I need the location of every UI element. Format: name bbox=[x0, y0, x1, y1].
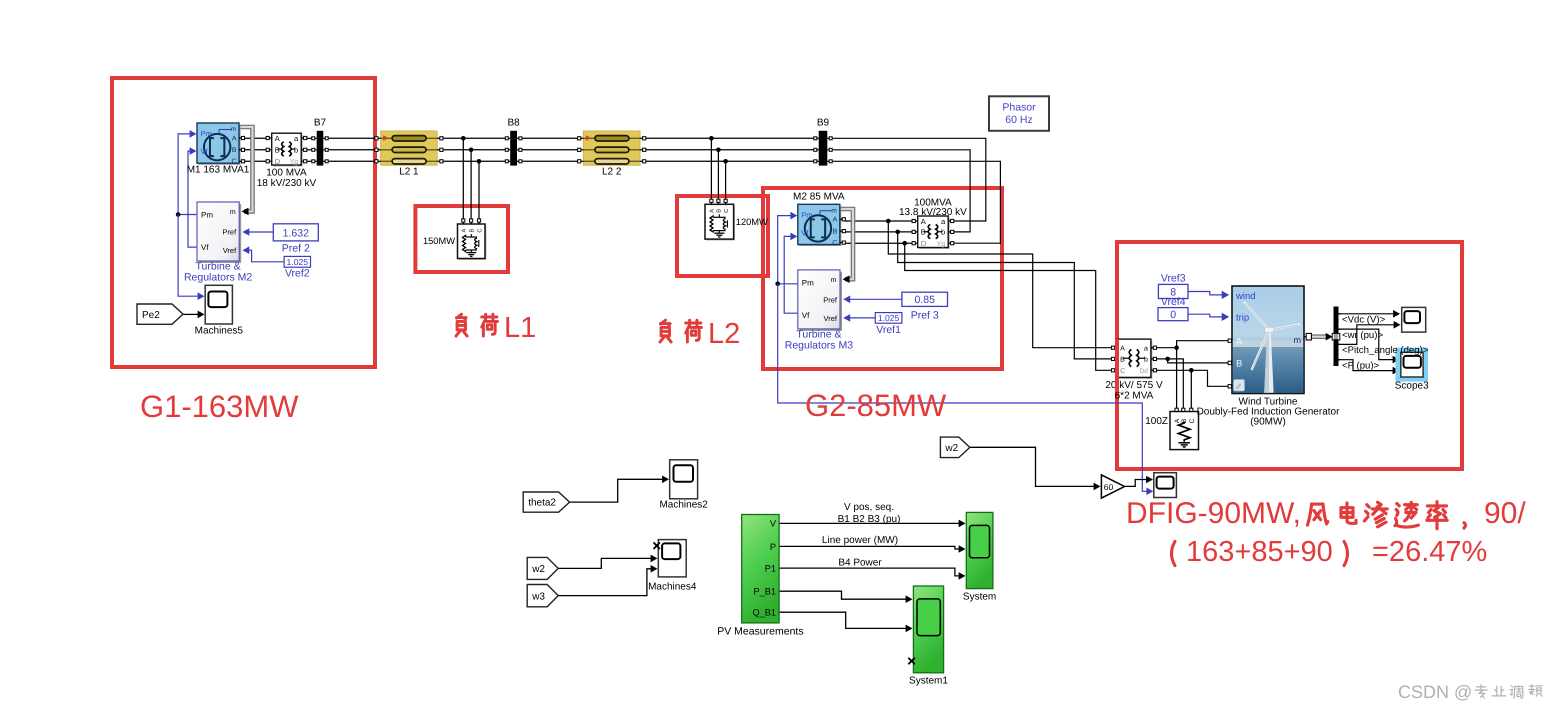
svg-text:B: B bbox=[469, 228, 475, 232]
transformer T3 bbox=[1105, 339, 1163, 401]
wire M1 to transformer T1 bbox=[244, 138, 268, 161]
svg-text:C: C bbox=[1120, 368, 1125, 375]
svg-text:A: A bbox=[275, 134, 280, 143]
svg-text:Line power (MW): Line power (MW) bbox=[822, 535, 898, 546]
svg-text:G1-163MW: G1-163MW bbox=[140, 389, 299, 424]
svg-text:System: System bbox=[963, 592, 996, 603]
wire B8 to line L2 2 bbox=[520, 138, 578, 161]
svg-text:1.025: 1.025 bbox=[287, 257, 309, 267]
svg-text:V pos, seq.: V pos, seq. bbox=[844, 502, 894, 513]
wind turbine DFIG block bbox=[1197, 286, 1341, 427]
wire Vref4 constant to trip input bbox=[1188, 313, 1229, 321]
svg-text:B: B bbox=[921, 228, 926, 237]
constant Pref 3 value 0.85 bbox=[902, 292, 948, 321]
annotation box load L2 bbox=[677, 196, 768, 276]
svg-text:Vf: Vf bbox=[801, 228, 809, 237]
svg-text:P_B1: P_B1 bbox=[754, 587, 776, 597]
svg-text:System1: System1 bbox=[909, 676, 948, 687]
svg-text:<Pitch_angle (deg)>: <Pitch_angle (deg)> bbox=[1342, 345, 1429, 356]
svg-text:Vref3: Vref3 bbox=[1161, 273, 1186, 285]
input tag w2 second bbox=[940, 437, 969, 458]
svg-text:Machines4: Machines4 bbox=[648, 582, 697, 593]
input tag w2 bbox=[527, 557, 558, 579]
svg-text:trip: trip bbox=[1236, 313, 1249, 324]
wire PV Q_B1 output to System1 bbox=[779, 612, 912, 632]
Phasor 60 Hz block bbox=[989, 96, 1049, 131]
svg-text:PV Measurements: PV Measurements bbox=[717, 626, 803, 638]
wind turbine measurement bus to bus selector bbox=[1306, 333, 1333, 341]
svg-text:G2-85MW: G2-85MW bbox=[805, 388, 947, 423]
svg-text:60 Hz: 60 Hz bbox=[1005, 114, 1032, 126]
svg-text:Vf: Vf bbox=[802, 311, 810, 320]
svg-text:1.632: 1.632 bbox=[283, 227, 309, 239]
svg-text:Pref 3: Pref 3 bbox=[911, 310, 939, 322]
wire Vref1 constant to T&R M3 bbox=[843, 314, 875, 322]
svg-text:Q_B1: Q_B1 bbox=[753, 608, 777, 618]
svg-text:B: B bbox=[232, 147, 237, 154]
svg-text:20 kV/ 575 V: 20 kV/ 575 V bbox=[1105, 380, 1163, 391]
svg-text:M2 85 MVA: M2 85 MVA bbox=[793, 191, 845, 202]
svg-text:L2 1: L2 1 bbox=[399, 167, 419, 178]
signal label V pos seq bbox=[838, 502, 901, 525]
gain 60 bbox=[1101, 475, 1124, 498]
load block 150MW bbox=[458, 219, 487, 260]
scope Scope3 highlighted bbox=[1395, 348, 1429, 392]
wire w3 to Machines4 bbox=[558, 565, 657, 596]
label load L1 (Chinese) bbox=[456, 312, 536, 344]
wire taps to load 120MW bbox=[709, 136, 728, 201]
svg-text:m: m bbox=[831, 207, 836, 214]
PV Measurements block bbox=[717, 515, 803, 638]
wire L2 2 to bus B9 bbox=[644, 138, 815, 161]
svg-text:m: m bbox=[1294, 335, 1302, 345]
svg-text:60: 60 bbox=[1104, 482, 1114, 492]
wire B9 to G2/DFIG connection verticals bbox=[831, 138, 1001, 243]
input tag w3 bbox=[527, 585, 558, 607]
bus selector output wires to scopes bbox=[1339, 310, 1401, 374]
bus selector signal labels bbox=[1342, 315, 1429, 372]
svg-text:Pm: Pm bbox=[201, 129, 212, 138]
annotation box G2 bbox=[763, 188, 1002, 369]
svg-text:150MW: 150MW bbox=[423, 236, 455, 246]
scope Machines4 bbox=[648, 540, 697, 593]
svg-text:Regulators M3: Regulators M3 bbox=[785, 339, 853, 351]
svg-text:w2: w2 bbox=[944, 443, 958, 454]
wire L2 1 to bus B8 bbox=[442, 138, 507, 161]
svg-text:Vref2: Vref2 bbox=[285, 268, 310, 280]
wire PV V output to System bbox=[779, 520, 965, 528]
svg-text:Pref: Pref bbox=[823, 295, 838, 304]
subsystem Turbine & Regulators M2reg bbox=[184, 202, 252, 284]
svg-text:L1: L1 bbox=[504, 312, 536, 344]
svg-text:6*2 MVA: 6*2 MVA bbox=[1115, 390, 1154, 401]
svg-text:theta2: theta2 bbox=[528, 498, 556, 509]
wire Pe2 to Machines5 bbox=[183, 311, 205, 319]
svg-text:A: A bbox=[833, 217, 838, 224]
svg-text:Yg: Yg bbox=[290, 159, 299, 166]
svg-text:Pref: Pref bbox=[222, 228, 237, 237]
transformer T2 bbox=[912, 216, 954, 249]
svg-text:18 kV/230 kV: 18 kV/230 kV bbox=[257, 178, 317, 189]
bus selector bbox=[1332, 307, 1340, 367]
svg-text:P1: P1 bbox=[765, 564, 776, 574]
load 100Z bbox=[1145, 408, 1198, 449]
bus B7 bbox=[312, 118, 328, 166]
svg-text:A: A bbox=[462, 228, 468, 232]
display System1 bbox=[908, 586, 948, 687]
constant Vref2 value 1.025 bbox=[284, 256, 310, 279]
label DFIG annotation line 2 bbox=[1172, 536, 1488, 568]
wire gain 60 to scope bbox=[1125, 476, 1154, 487]
svg-text:Vref: Vref bbox=[824, 314, 838, 323]
svg-text:DFIG-90MW,: DFIG-90MW, bbox=[1126, 497, 1301, 530]
svg-text:A: A bbox=[1120, 346, 1125, 353]
svg-text:w3: w3 bbox=[531, 591, 545, 602]
svg-text:Phasor: Phasor bbox=[1002, 102, 1036, 114]
transmission line block L2 2 bbox=[578, 131, 646, 178]
transmission line block L2 1 bbox=[375, 131, 443, 178]
svg-text:Regulators M2: Regulators M2 bbox=[184, 272, 252, 284]
svg-text:1.025: 1.025 bbox=[878, 313, 900, 323]
svg-text:A: A bbox=[710, 209, 716, 213]
constant Vref1 value 1.025 bbox=[875, 313, 902, 336]
wire T1 to bus B7 bbox=[306, 138, 314, 161]
svg-text:b: b bbox=[941, 228, 945, 237]
svg-text:A: A bbox=[1236, 337, 1243, 348]
svg-text:B: B bbox=[1120, 357, 1125, 364]
svg-text:B4 Power: B4 Power bbox=[838, 558, 882, 569]
svg-text:a: a bbox=[1144, 346, 1148, 353]
subsystem Turbine & Regulators M3reg bbox=[785, 270, 853, 352]
svg-text:C: C bbox=[1189, 418, 1196, 423]
constant Vref4 value 0 bbox=[1158, 296, 1188, 321]
svg-text:M1 163 MVA1: M1 163 MVA1 bbox=[187, 165, 250, 176]
svg-text:B8: B8 bbox=[507, 118, 520, 129]
annotation box load L1 bbox=[415, 206, 508, 272]
broken link mark Machines4 bbox=[654, 542, 660, 549]
scope gain scope bbox=[1154, 473, 1177, 498]
svg-text:B: B bbox=[717, 209, 723, 213]
svg-text:D: D bbox=[275, 157, 281, 166]
svg-text:L2 2: L2 2 bbox=[602, 167, 622, 178]
transformer T1 bbox=[257, 133, 317, 189]
svg-text:C: C bbox=[723, 209, 730, 213]
svg-text:<wr (pu)>: <wr (pu)> bbox=[1342, 330, 1383, 341]
label DFIG annotation line 1 bbox=[1126, 497, 1526, 530]
wire taps to load 150MW bbox=[461, 136, 481, 221]
svg-text:Pm: Pm bbox=[801, 210, 812, 219]
load block 120MW bbox=[705, 199, 735, 240]
svg-text:m: m bbox=[230, 209, 236, 216]
svg-text:A: A bbox=[232, 135, 237, 142]
svg-text:Vf: Vf bbox=[201, 147, 209, 156]
svg-text:Pm: Pm bbox=[802, 278, 814, 287]
svg-text:(90MW): (90MW) bbox=[1250, 416, 1286, 427]
scope Machines5 bbox=[195, 285, 244, 336]
svg-text:w2: w2 bbox=[531, 564, 545, 575]
wire T3 outputs to wind turbine and 100Z load bbox=[1155, 341, 1228, 408]
svg-text:P: P bbox=[770, 542, 776, 552]
label transformer T2 bbox=[899, 197, 967, 218]
wire T&R M3 Vf to machine M2 bbox=[784, 233, 798, 314]
wire T&R M3 Pm to machine M2 and long tap to scope bbox=[775, 212, 1153, 495]
svg-text:0.85: 0.85 bbox=[914, 294, 935, 306]
svg-text:D: D bbox=[921, 239, 927, 248]
scope Machines2 bbox=[659, 460, 708, 511]
input tag Pe2 bbox=[137, 304, 183, 324]
annotation box G1 bbox=[112, 78, 375, 367]
svg-text:0: 0 bbox=[1170, 309, 1176, 321]
svg-text:<P (pu)>: <P (pu)> bbox=[1342, 361, 1380, 372]
svg-text:Vf: Vf bbox=[201, 243, 209, 252]
svg-text:<Vdc (V)>: <Vdc (V)> bbox=[1342, 315, 1386, 326]
svg-text:m: m bbox=[231, 126, 236, 133]
wire Vref2 constant to T&R M2 bbox=[242, 246, 284, 261]
svg-text:C: C bbox=[832, 240, 837, 247]
wire Pref 2 constant to T&R M2 bbox=[242, 228, 273, 236]
wire PV P1 output to System bbox=[779, 568, 965, 580]
svg-text:B: B bbox=[275, 146, 280, 155]
svg-text:100 MVA: 100 MVA bbox=[266, 168, 307, 179]
constant Pref 2 value 1.632 bbox=[273, 224, 318, 255]
scope wind scope bbox=[1402, 307, 1426, 332]
machine M1 measurement bus to T&R M2 bbox=[237, 127, 253, 215]
svg-text:Machines5: Machines5 bbox=[195, 326, 244, 337]
svg-text:Yg: Yg bbox=[937, 241, 946, 248]
svg-text:V: V bbox=[770, 519, 777, 529]
synchronous machine M2 bbox=[793, 191, 845, 247]
wire w2 to Machines4 bbox=[558, 555, 657, 569]
svg-text:L2: L2 bbox=[708, 318, 740, 350]
wire PV P_B1 output to System1 bbox=[779, 591, 912, 603]
svg-text:Vref: Vref bbox=[223, 246, 237, 255]
display System bbox=[963, 512, 996, 602]
svg-text:Pref 2: Pref 2 bbox=[282, 243, 310, 255]
svg-text:13.8 kV/230 kV: 13.8 kV/230 kV bbox=[899, 207, 967, 218]
watermark CSDN bbox=[1398, 682, 1542, 702]
label load L2 (Chinese) bbox=[660, 318, 740, 350]
svg-text:C: C bbox=[476, 228, 483, 232]
svg-text:120MW: 120MW bbox=[736, 217, 768, 227]
wire Pref 3 constant to T&R M3 bbox=[843, 296, 902, 304]
machine M2 measurement bus to T&R M3 bbox=[838, 209, 853, 283]
svg-text:b: b bbox=[1144, 356, 1148, 364]
wire T&R M2 Pm to machine M1 and Machines5 bbox=[176, 130, 205, 300]
svg-text:=26.47%: =26.47% bbox=[1372, 536, 1487, 568]
wire M2 to transformer T2 with taps bbox=[844, 219, 1113, 371]
svg-text:B: B bbox=[1236, 359, 1242, 370]
bus B8 bbox=[505, 118, 522, 166]
wire theta2 to Machines2 bbox=[570, 476, 669, 503]
svg-text:163+85+90: 163+85+90 bbox=[1186, 536, 1333, 568]
constant Vref3 value 8 bbox=[1158, 273, 1188, 299]
svg-text:CSDN @: CSDN @ bbox=[1398, 682, 1472, 702]
input tag theta2 bbox=[523, 492, 569, 512]
svg-text:wind: wind bbox=[1235, 291, 1256, 302]
annotation DFIG box edge over transformer bbox=[1115, 339, 1119, 392]
wire Vref3 constant to wind input bbox=[1188, 291, 1229, 299]
wire PV P output to System bbox=[779, 545, 965, 553]
svg-text:B9: B9 bbox=[817, 118, 830, 129]
svg-text:90/: 90/ bbox=[1484, 497, 1526, 530]
svg-text:B: B bbox=[833, 229, 838, 236]
synchronous machine M1 bbox=[187, 123, 250, 176]
svg-text:Scope3: Scope3 bbox=[1395, 381, 1429, 392]
svg-text:b: b bbox=[294, 146, 298, 155]
wire w2 tag to gain 60 bbox=[970, 447, 1101, 490]
svg-text:m: m bbox=[831, 277, 837, 284]
svg-text:Pm: Pm bbox=[201, 211, 213, 220]
svg-text:B7: B7 bbox=[314, 118, 327, 129]
svg-text:Dd: Dd bbox=[1140, 368, 1149, 375]
svg-text:Machines2: Machines2 bbox=[659, 500, 708, 511]
wire T&R M2 Vf to machine M1 bbox=[188, 147, 197, 247]
svg-text:Vref4: Vref4 bbox=[1161, 296, 1186, 308]
wire B7 to line L2 1 bbox=[326, 138, 376, 161]
annotation box DFIG bbox=[1117, 242, 1462, 469]
svg-text:Vref1: Vref1 bbox=[876, 324, 901, 336]
svg-text:Pe2: Pe2 bbox=[142, 310, 160, 321]
svg-text:100Z: 100Z bbox=[1145, 416, 1168, 427]
bus B9 bbox=[814, 118, 832, 166]
